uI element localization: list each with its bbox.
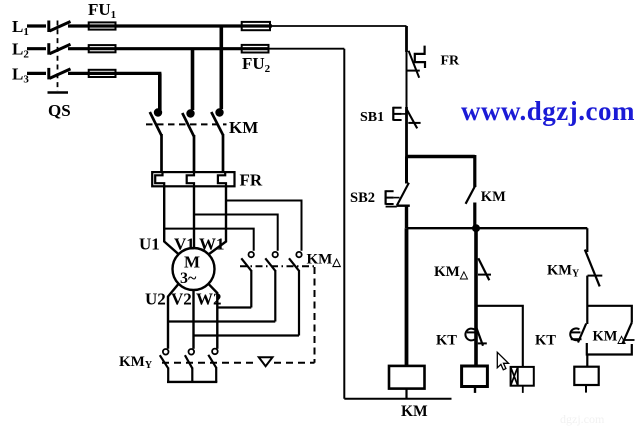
wire parallel branch top	[587, 306, 632, 323]
wire KT box stub	[522, 386, 524, 393]
svg-text:V1: V1	[174, 235, 195, 254]
fuse FU1 pole 3	[89, 70, 116, 77]
coil KT timer box	[511, 367, 534, 386]
contactor KM-delta contact 2 terminal	[273, 252, 278, 257]
coil KM-Y	[574, 367, 598, 385]
wire phase B drop	[191, 49, 195, 110]
svg-text:KM: KM	[481, 189, 506, 205]
svg-text:M: M	[184, 253, 200, 272]
switch QS pole 3	[49, 68, 71, 80]
wire stub to KM-Y coil	[586, 355, 588, 367]
wire W1 lead	[209, 186, 226, 254]
wire below SB2	[405, 206, 408, 229]
wire V1 lead	[193, 186, 195, 248]
switch QS pole 1	[49, 21, 71, 33]
wire control line SB1 segment	[405, 107, 408, 157]
svg-text:V2: V2	[171, 290, 192, 309]
timer KT contact right tick	[571, 338, 582, 340]
wire right branch upper	[586, 228, 588, 252]
wire V2 lead	[192, 290, 194, 349]
svg-text:QS: QS	[48, 101, 71, 120]
wire control line FR segment	[406, 50, 408, 107]
KT box X mark	[511, 367, 518, 386]
node dot contact 1	[154, 108, 162, 116]
mouse cursor	[497, 352, 508, 370]
svg-text:U1: U1	[139, 235, 160, 254]
svg-text:KM: KM	[229, 118, 258, 137]
contactor KM-delta contact 3 terminal	[296, 252, 301, 257]
KM main linkage dashed	[146, 123, 227, 125]
switch QS pole 2	[49, 43, 71, 55]
contactor KM-Y contact 2 blade	[185, 355, 192, 368]
wire branch top	[407, 155, 475, 159]
wire delta3 to V2	[194, 334, 299, 336]
wire L2 row	[68, 47, 269, 50]
contactor KM aux contact blade	[466, 185, 476, 203]
QS bottom bar	[48, 91, 69, 93]
pushbutton SB2 blade	[397, 183, 409, 206]
FR heater element 2	[187, 172, 194, 186]
wire L2 stub	[27, 47, 46, 50]
FR control contact tick	[407, 70, 420, 72]
pushbutton SB1 actuator E	[393, 107, 405, 121]
wire return bottom	[344, 398, 451, 400]
svg-text:KT: KT	[436, 333, 457, 349]
fuse FU2 upper	[242, 22, 270, 30]
interlock triangle symbol	[259, 357, 273, 366]
wire L3 row	[68, 72, 161, 75]
FR control contact blade	[409, 51, 420, 78]
contactor KM-Y contact 1 blade	[160, 355, 168, 368]
wire L1 stub	[27, 24, 46, 27]
wire KM coil bottom stub	[405, 389, 407, 399]
fuse FU2 lower	[242, 45, 269, 53]
svg-text:www.dgzj.com: www.dgzj.com	[461, 96, 635, 126]
KM-Y linkage dashed left	[162, 362, 258, 364]
wire main line to KM coil	[405, 228, 409, 366]
wire delta1 to W2	[217, 306, 251, 308]
contactor KM-Y contact 2 terminal	[189, 349, 195, 355]
wire phase A drop	[220, 26, 224, 109]
timer KT contact left dash	[467, 331, 476, 333]
svg-text:3~: 3~	[180, 270, 197, 287]
wire main line to SB2	[405, 157, 408, 184]
KM-Y linkage dashed right	[274, 362, 315, 364]
FR thermal hook symbol	[415, 46, 425, 68]
wire parallel branch bottom bar	[587, 343, 632, 355]
svg-text:SB1: SB1	[360, 110, 384, 125]
svg-text:KM: KM	[401, 403, 428, 420]
contactor KM-delta aux contact blade right	[622, 323, 631, 344]
wire tap row W1 to delta	[226, 201, 302, 251]
KM-delta aux tick right	[625, 339, 635, 341]
fuse FU1 pole 2	[89, 45, 116, 52]
contactor KM-Y contact 3 terminal	[212, 349, 218, 355]
svg-text:SB2: SB2	[350, 190, 375, 206]
contactor KM-Y contact 1 terminal	[163, 349, 169, 355]
timer KT contact left tick	[478, 342, 487, 344]
wire KM-Y coil stub	[585, 385, 587, 393]
wire tap row U1 to delta	[164, 229, 254, 251]
wire KM-delta coil stub	[474, 387, 476, 393]
wire control line top	[405, 26, 408, 52]
node junction dot	[472, 224, 480, 232]
timer KT contact right blade	[578, 324, 586, 343]
wire tap row V1 to delta	[194, 215, 278, 251]
svg-text:FR: FR	[240, 171, 263, 190]
wire below Y contact 2	[191, 368, 193, 382]
wire KM aux branch upper	[473, 155, 476, 187]
KM-delta NC contact tick	[478, 274, 491, 276]
wire phase C drop	[158, 73, 162, 110]
timer KT contact right arc	[570, 328, 579, 340]
svg-text:KT: KT	[535, 333, 556, 349]
wire below delta contact 3	[298, 270, 300, 336]
wire branch KM-delta vertical	[474, 228, 478, 366]
svg-text:U2: U2	[145, 290, 166, 309]
pushbutton SB2 actuator E	[386, 190, 400, 206]
pushbutton SB1 blade	[406, 109, 417, 129]
wire return vertical	[343, 49, 345, 399]
wire U1 lead	[164, 186, 179, 254]
svg-text:FR: FR	[441, 54, 461, 69]
star point bar	[167, 381, 217, 383]
wire U2 lead	[168, 284, 179, 349]
thermal relay FR box	[152, 172, 234, 186]
node dot contact 2	[186, 109, 194, 117]
wire KM aux branch lower	[473, 203, 476, 229]
contactor KM-Y contact 3 blade	[208, 355, 216, 368]
wire junction row	[407, 227, 588, 229]
KT box divider	[517, 367, 519, 386]
wire below delta contact 1	[250, 270, 252, 308]
FR heater element 3	[218, 172, 226, 186]
timer KT contact right dash	[571, 331, 581, 333]
coil KM-delta	[462, 366, 488, 387]
wire delta2 to U2	[168, 320, 275, 322]
timer KT contact left blade	[476, 328, 483, 346]
contactor KM main contact 1	[150, 112, 162, 172]
node dot contact 3	[215, 108, 223, 116]
contactor KM main contact 3	[211, 112, 223, 172]
contactor KM-delta contact 1 blade	[241, 258, 251, 271]
motor M circle	[173, 248, 215, 290]
svg-text:dgzj.com: dgzj.com	[560, 412, 605, 426]
wire right branch middle	[586, 276, 588, 324]
wire below Y contact 3	[215, 367, 217, 382]
timer KT contact left arc	[465, 329, 474, 341]
coil KM	[389, 366, 425, 389]
contactor KM-delta contact 3 blade	[289, 258, 299, 271]
wire L3 stub	[27, 72, 46, 75]
wire L1 row	[68, 24, 272, 27]
contactor KM-delta NC contact blade	[478, 258, 489, 280]
wire below Y contact 1	[167, 368, 169, 382]
fuse FU1 pole 1	[89, 22, 116, 29]
KM-delta linkage dash-dot	[240, 265, 315, 267]
pushbutton SB2 tick	[397, 204, 410, 206]
FR heater element 1	[155, 172, 164, 186]
contactor KM main contact 2	[182, 113, 194, 172]
pushbutton SB1 tick	[408, 122, 420, 124]
contactor KM-delta contact 2 blade	[265, 258, 275, 271]
KM-delta linkage vertical dashed	[314, 267, 316, 363]
svg-text:W1: W1	[199, 235, 225, 254]
contactor KM-Y aux contact blade	[585, 250, 600, 287]
KM-Y aux contact tick	[588, 275, 603, 277]
QS linkage dashed line	[57, 21, 59, 92]
wire W2 lead	[208, 284, 217, 349]
wire branch to KT coil box	[476, 306, 523, 367]
contactor KM-delta contact 1 terminal	[249, 252, 254, 257]
wire below delta contact 2	[274, 270, 276, 322]
